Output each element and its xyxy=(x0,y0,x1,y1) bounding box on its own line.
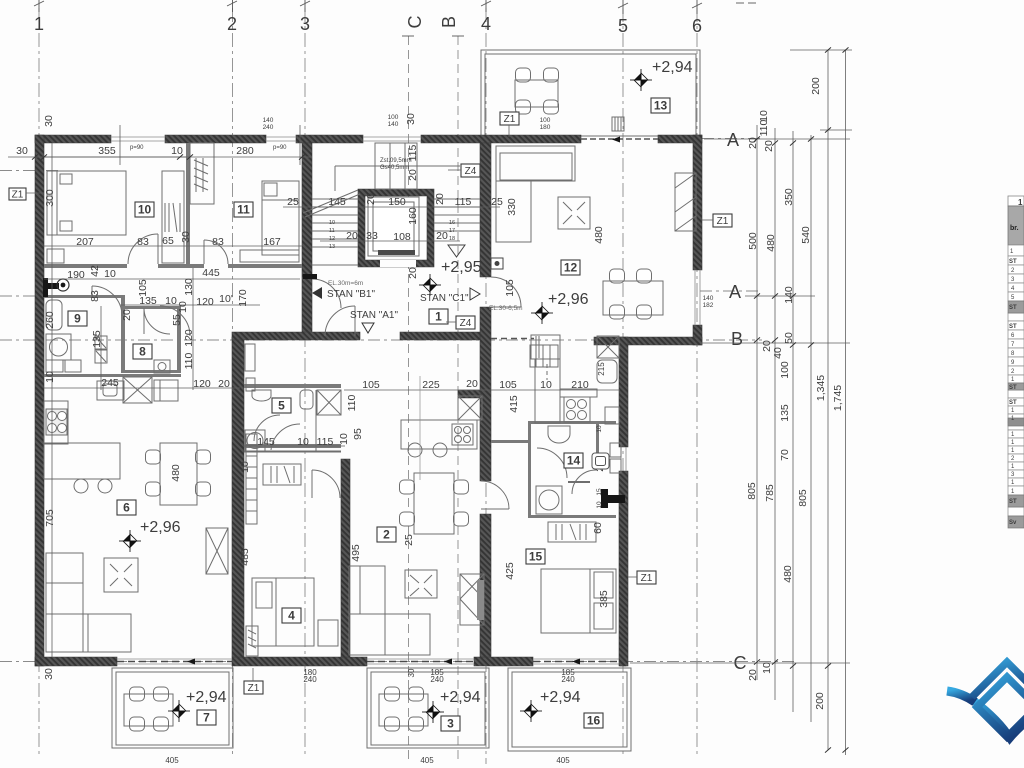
svg-text:20: 20 xyxy=(763,140,775,152)
svg-text:2: 2 xyxy=(227,14,237,34)
logo chevron xyxy=(972,662,1024,697)
door hall-left xyxy=(92,286,122,316)
svg-text:480: 480 xyxy=(765,234,777,252)
svg-text:190: 190 xyxy=(67,269,85,281)
svg-text:10: 10 xyxy=(297,436,309,448)
svg-text:110: 110 xyxy=(183,352,195,369)
svg-text:+2,96: +2,96 xyxy=(140,519,181,536)
svg-text:240: 240 xyxy=(303,675,317,684)
logo diamond xyxy=(977,677,1024,737)
unit 12 X table xyxy=(558,197,590,229)
svg-text:15: 15 xyxy=(596,488,603,496)
svg-text:ST: ST xyxy=(1009,400,1017,406)
svg-text:405: 405 xyxy=(420,756,434,765)
step wall row B xyxy=(619,337,702,345)
svg-text:+2,96: +2,96 xyxy=(548,291,589,308)
C1 kitchen top counters xyxy=(496,146,575,242)
right chain ticks xyxy=(32,47,849,752)
row axis tail left y170 xyxy=(0,170,58,172)
svg-text:30: 30 xyxy=(16,145,28,157)
svg-text:25: 25 xyxy=(491,196,503,208)
door stan B1 area xyxy=(325,306,355,336)
svg-text:1,345: 1,345 xyxy=(815,375,827,401)
svg-text:42: 42 xyxy=(89,265,101,277)
svg-text:11: 11 xyxy=(329,228,335,234)
door stan C1 xyxy=(491,277,521,307)
svg-text:83: 83 xyxy=(89,290,101,302)
svg-text:115: 115 xyxy=(455,196,472,208)
door bath8 xyxy=(160,306,190,336)
svg-text:17: 17 xyxy=(449,228,455,234)
top dim row xyxy=(8,156,312,158)
svg-text:ST: ST xyxy=(1009,305,1017,311)
logo valley swoosh xyxy=(973,700,1024,738)
svg-text:405: 405 xyxy=(165,756,179,765)
svg-text:445: 445 xyxy=(202,267,220,279)
svg-text:300: 300 xyxy=(44,189,56,207)
interior wall x485 full xyxy=(480,143,491,277)
svg-text:95: 95 xyxy=(352,428,364,440)
door slide arrows xyxy=(187,659,195,665)
row y279 xyxy=(44,278,300,280)
svg-text:350: 350 xyxy=(783,188,795,206)
svg-text:1,745: 1,745 xyxy=(832,385,844,411)
treads right of shaft xyxy=(434,198,480,200)
stub B1 door xyxy=(303,274,317,279)
vertical chains left xyxy=(51,143,53,657)
rooms 10/11 bottom wall xyxy=(44,264,127,268)
svg-text:120: 120 xyxy=(193,378,211,390)
grid line 2 xyxy=(232,8,234,758)
svg-text:805: 805 xyxy=(746,482,758,500)
balcony 7 table xyxy=(124,687,173,731)
landing outline xyxy=(335,165,460,167)
top wall windows (thin) xyxy=(111,137,421,141)
room 8 shower toilet xyxy=(46,308,170,403)
svg-text:105: 105 xyxy=(137,279,149,297)
svg-text:10: 10 xyxy=(338,433,350,445)
svg-text:A: A xyxy=(729,282,741,302)
svg-text:16: 16 xyxy=(587,714,601,728)
svg-text:83: 83 xyxy=(137,236,149,248)
svg-text:6: 6 xyxy=(123,501,130,515)
svg-text:140: 140 xyxy=(388,121,399,128)
grid line 3 xyxy=(304,8,306,758)
svg-text:25: 25 xyxy=(403,534,415,546)
unit 6 sofa xyxy=(46,553,131,652)
window sill texts xyxy=(130,145,412,171)
svg-text:100: 100 xyxy=(779,361,791,379)
boiler box room14 xyxy=(592,453,609,469)
partition rooms 10/11 xyxy=(186,143,190,264)
svg-text:425: 425 xyxy=(504,562,516,580)
svg-text:215: 215 xyxy=(597,362,606,376)
svg-text:30: 30 xyxy=(43,668,55,680)
stair treads left xyxy=(312,198,358,200)
svg-text:2: 2 xyxy=(383,528,390,542)
room 10 bed xyxy=(44,157,186,263)
interior wall x238 xyxy=(232,337,244,657)
svg-text:25: 25 xyxy=(287,196,299,208)
svg-text:240: 240 xyxy=(263,124,274,131)
svg-text:ST: ST xyxy=(1009,259,1017,265)
sun symbols xyxy=(630,69,652,91)
black door stubs xyxy=(43,137,625,665)
svg-text:Z1: Z1 xyxy=(12,190,24,201)
svg-text:EL.30m=6m: EL.30m=6m xyxy=(328,280,363,287)
unit 6 tv xyxy=(206,528,228,574)
svg-text:145: 145 xyxy=(257,436,275,448)
svg-text:20: 20 xyxy=(121,309,133,321)
svg-text:105: 105 xyxy=(504,279,516,297)
room 10 wardrobe xyxy=(162,171,184,263)
kitchen C1 top dims xyxy=(491,389,620,391)
unit 12 wardrobe xyxy=(675,173,696,231)
right side dims xyxy=(746,77,844,710)
svg-text:500: 500 xyxy=(747,232,759,250)
svg-text:167: 167 xyxy=(263,236,281,248)
balcony 13 table xyxy=(515,68,559,114)
svg-text:10: 10 xyxy=(177,301,189,313)
unit 6 dining table xyxy=(146,443,211,505)
svg-text:20: 20 xyxy=(407,267,419,279)
down triangle marker C1 wall xyxy=(448,245,465,257)
svg-text:225: 225 xyxy=(422,379,440,391)
step numbers xyxy=(329,220,455,250)
svg-text:240: 240 xyxy=(561,675,575,684)
elevator shaft xyxy=(358,189,434,267)
svg-text:B: B xyxy=(731,329,743,349)
bottom wall xyxy=(35,657,117,666)
room 15 bed xyxy=(541,569,616,633)
svg-text:30: 30 xyxy=(405,113,417,125)
kitchen C1 counter separators xyxy=(491,440,531,443)
door bath14 xyxy=(533,445,535,447)
svg-text:30: 30 xyxy=(180,231,192,243)
svg-text:p=90: p=90 xyxy=(130,145,144,151)
row y241 second xyxy=(320,240,460,242)
svg-text:20: 20 xyxy=(365,193,377,205)
svg-text:Zst.09,5mm: Zst.09,5mm xyxy=(380,158,412,164)
row y207 stair xyxy=(283,206,500,208)
unit 2 dining table xyxy=(400,473,469,534)
svg-text:40: 40 xyxy=(772,347,784,359)
svg-text:10: 10 xyxy=(138,203,152,217)
svg-text:10: 10 xyxy=(165,295,177,307)
unit 12 lower cabinet xyxy=(530,336,619,367)
svg-text:480: 480 xyxy=(170,464,182,482)
svg-text:20: 20 xyxy=(747,669,759,681)
room 4 wardrobe xyxy=(246,434,258,656)
unit 2 coffee table xyxy=(405,570,437,598)
door room10 xyxy=(128,234,158,264)
balcony 16 xyxy=(508,668,631,751)
level texts xyxy=(140,59,693,706)
shaft stub wall + X box xyxy=(458,390,481,398)
svg-text:355: 355 xyxy=(98,145,116,157)
svg-text:20: 20 xyxy=(434,193,446,205)
svg-text:30: 30 xyxy=(43,115,55,127)
svg-text:33: 33 xyxy=(366,230,378,242)
svg-text:150: 150 xyxy=(388,196,406,208)
grid top ticks xyxy=(34,0,756,36)
grid line 6 xyxy=(696,8,698,758)
svg-text:10': 10' xyxy=(219,293,233,305)
svg-text:130: 130 xyxy=(183,278,195,296)
svg-text:15: 15 xyxy=(529,550,543,564)
svg-text:20: 20 xyxy=(218,378,230,390)
balcony 3 table xyxy=(379,687,428,731)
row y305 xyxy=(120,304,260,306)
svg-text:280: 280 xyxy=(236,145,254,157)
logo left wing xyxy=(947,691,975,702)
svg-text:108: 108 xyxy=(393,231,411,243)
svg-text:200: 200 xyxy=(814,692,826,710)
svg-text:385: 385 xyxy=(598,590,610,608)
svg-text:Sv: Sv xyxy=(1009,520,1017,526)
vent shaft above lift xyxy=(375,143,417,189)
small texts bottom xyxy=(165,668,575,765)
svg-text:C: C xyxy=(405,16,425,29)
svg-text:182: 182 xyxy=(703,302,714,309)
svg-text:100: 100 xyxy=(540,117,551,124)
svg-text:30: 30 xyxy=(407,668,416,677)
shaft X box xyxy=(458,396,482,420)
unit 12 table xyxy=(603,269,663,319)
svg-text:105: 105 xyxy=(499,379,517,391)
svg-text:12: 12 xyxy=(564,261,578,275)
svg-text:495: 495 xyxy=(350,544,362,562)
svg-text:115: 115 xyxy=(317,436,334,448)
svg-text:105: 105 xyxy=(362,379,380,391)
svg-text:210: 210 xyxy=(571,379,589,391)
svg-text:10: 10 xyxy=(540,379,552,391)
svg-text:100: 100 xyxy=(388,114,399,121)
svg-text:3: 3 xyxy=(300,14,310,34)
svg-text:240: 240 xyxy=(430,675,444,684)
grid labels xyxy=(34,14,747,673)
svg-text:140: 140 xyxy=(263,117,274,124)
grid line 5 xyxy=(622,8,624,758)
svg-text:+2,94: +2,94 xyxy=(540,689,581,706)
svg-text:65: 65 xyxy=(162,235,174,247)
svg-text:13: 13 xyxy=(329,244,335,250)
grid line 4 xyxy=(485,8,487,764)
room 11 bed xyxy=(240,181,299,262)
svg-text:10: 10 xyxy=(44,371,56,383)
row B wall xyxy=(232,332,360,340)
top wall xyxy=(35,135,111,143)
svg-text:140: 140 xyxy=(703,295,714,302)
door room11 xyxy=(204,240,228,264)
svg-text:805: 805 xyxy=(797,489,809,507)
room 9/8 partitions xyxy=(44,295,122,298)
svg-text:Z4: Z4 xyxy=(460,318,472,329)
rooms 10/11 dims xyxy=(44,231,281,390)
svg-text:207: 207 xyxy=(76,236,94,248)
stair diagonal xyxy=(303,190,358,213)
balcony 7 xyxy=(112,668,233,748)
svg-text:br.: br. xyxy=(1010,225,1019,232)
svg-text:p=90: p=90 xyxy=(273,145,287,151)
svg-text:705: 705 xyxy=(44,509,56,527)
svg-text:20: 20 xyxy=(346,230,358,242)
unit 6 island xyxy=(44,443,120,493)
svg-text:7: 7 xyxy=(203,711,210,725)
svg-text:50: 50 xyxy=(783,332,795,344)
stair dims xyxy=(287,144,503,278)
row axis A2 y296 xyxy=(0,295,120,297)
unit 6 coffee table xyxy=(104,558,138,592)
stub left wall xyxy=(44,283,59,289)
svg-text:10: 10 xyxy=(171,145,183,157)
unit 6 kitchen counter xyxy=(44,380,178,444)
balcony 13 top xyxy=(481,50,700,136)
svg-text:Z1: Z1 xyxy=(248,683,260,694)
svg-text:60: 60 xyxy=(592,522,604,534)
right chain horizontal connectors xyxy=(704,138,850,140)
svg-text:20: 20 xyxy=(436,230,448,242)
svg-text:10: 10 xyxy=(329,220,335,226)
svg-text:120: 120 xyxy=(196,296,214,308)
bathroom 14 fixtures xyxy=(536,426,621,514)
stub right wall xyxy=(605,495,625,503)
svg-text:STAN "A1": STAN "A1" xyxy=(350,310,398,321)
svg-text:5: 5 xyxy=(618,16,628,36)
row axis A right tail xyxy=(702,138,762,140)
svg-text:405: 405 xyxy=(556,756,570,765)
svg-text:ST: ST xyxy=(1009,385,1017,391)
dimension texts top xyxy=(16,113,417,680)
svg-text:1: 1 xyxy=(34,14,44,34)
svg-text:485: 485 xyxy=(239,548,251,566)
door room15 xyxy=(572,470,596,494)
svg-text:55: 55 xyxy=(171,314,183,326)
unit 2 wardrobe xyxy=(460,574,484,625)
svg-text:ST: ST xyxy=(1009,499,1017,505)
svg-text:ST: ST xyxy=(1009,324,1017,330)
svg-text:B: B xyxy=(439,16,459,28)
svg-text:10: 10 xyxy=(761,662,773,674)
svg-text:160: 160 xyxy=(407,207,419,225)
C1 kitchen lower xyxy=(491,335,619,424)
row axis B y340 xyxy=(0,339,762,341)
svg-text:16: 16 xyxy=(449,220,455,226)
room 9 sink + washer xyxy=(46,300,71,360)
svg-text:STAN "B1": STAN "B1" xyxy=(327,289,375,300)
svg-text:110: 110 xyxy=(758,119,770,136)
svg-text:70: 70 xyxy=(779,449,791,461)
bathroom 5 walls xyxy=(244,384,341,388)
room 5 fixtures xyxy=(244,344,341,485)
svg-text:9: 9 xyxy=(74,312,81,326)
svg-text:14: 14 xyxy=(567,454,581,468)
svg-text:13: 13 xyxy=(654,99,668,113)
svg-text:10: 10 xyxy=(104,268,116,280)
svg-text:Gs40,5mm: Gs40,5mm xyxy=(380,165,409,171)
svg-text:120: 120 xyxy=(183,329,195,347)
svg-text:180: 180 xyxy=(540,124,551,131)
wardrobe nook xyxy=(190,143,214,204)
left wall xyxy=(35,135,44,666)
svg-text:10: 10 xyxy=(239,461,251,473)
svg-text:STAN "C1": STAN "C1" xyxy=(420,293,469,304)
door unit2 hall xyxy=(312,470,340,498)
interior wall x305 (stair left) xyxy=(302,143,312,338)
svg-text:+2,94: +2,94 xyxy=(652,59,693,76)
Z boxes xyxy=(9,112,732,694)
svg-text:EL.30-6,5m: EL.30-6,5m xyxy=(489,305,523,312)
unit 2 sofa xyxy=(349,566,430,655)
right wall upper block xyxy=(693,135,702,270)
svg-text:+2,95: +2,95 xyxy=(441,259,482,276)
lift car xyxy=(368,197,419,256)
svg-text:4: 4 xyxy=(288,609,295,623)
middle dims xyxy=(170,198,610,608)
svg-text:6: 6 xyxy=(692,16,702,36)
svg-text:Z1: Z1 xyxy=(717,216,729,227)
door unit C1 lower xyxy=(481,481,509,509)
room 15 shelf xyxy=(548,522,596,542)
svg-text:480: 480 xyxy=(593,226,605,244)
svg-text:540: 540 xyxy=(800,226,812,244)
svg-text:135: 135 xyxy=(91,330,103,348)
svg-text:480: 480 xyxy=(782,565,794,583)
svg-text:Z4: Z4 xyxy=(465,166,477,177)
row y442 xyxy=(244,445,345,447)
svg-text:200: 200 xyxy=(810,77,822,95)
svg-text:+2,94: +2,94 xyxy=(186,689,227,706)
svg-text:20: 20 xyxy=(747,137,759,149)
STAN labels xyxy=(312,280,523,333)
balcony 3 xyxy=(367,668,489,748)
grid line C xyxy=(408,36,410,764)
room number boxes xyxy=(68,98,670,731)
svg-text:260: 260 xyxy=(44,311,56,329)
svg-text:415: 415 xyxy=(508,395,520,413)
interior wall x345 xyxy=(341,459,350,657)
svg-text:3: 3 xyxy=(447,717,454,731)
svg-text:140: 140 xyxy=(783,286,795,304)
svg-text:785: 785 xyxy=(764,484,776,502)
svg-text:83: 83 xyxy=(212,236,224,248)
svg-text:+2,94: +2,94 xyxy=(440,689,481,706)
right wall lower xyxy=(619,337,628,447)
door room5 xyxy=(254,415,280,441)
svg-text:20: 20 xyxy=(466,378,478,390)
svg-text:A: A xyxy=(727,130,739,150)
svg-text:11: 11 xyxy=(237,203,250,217)
svg-text:245: 245 xyxy=(101,377,119,389)
svg-text:1: 1 xyxy=(435,310,442,324)
svg-text:330: 330 xyxy=(506,198,518,216)
tiny stacked dims above top wall xyxy=(263,114,714,509)
svg-text:135: 135 xyxy=(779,404,791,422)
svg-text:Z1: Z1 xyxy=(641,573,653,584)
svg-text:145: 145 xyxy=(328,196,346,208)
grid line 1 xyxy=(38,8,40,758)
svg-text:8: 8 xyxy=(139,345,146,359)
room 4 bed xyxy=(252,578,338,646)
right dim chains xyxy=(756,125,758,680)
bathroom 14 walls xyxy=(528,421,616,424)
row axis C y662 xyxy=(0,661,795,663)
svg-text:4: 4 xyxy=(481,14,491,34)
svg-text:170: 170 xyxy=(237,289,249,307)
grid line B xyxy=(457,36,459,764)
row y388 xyxy=(44,387,240,389)
svg-text:Z1: Z1 xyxy=(504,114,516,125)
